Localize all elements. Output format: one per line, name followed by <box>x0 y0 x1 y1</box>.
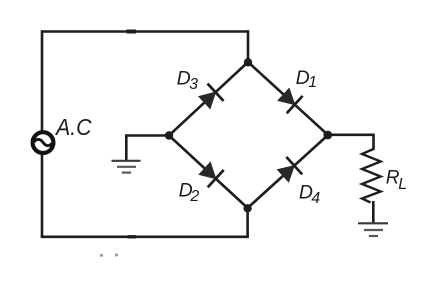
svg-text:3: 3 <box>189 76 198 93</box>
diode D1 symbol <box>278 88 303 113</box>
wire left vertical upper (top rail to AC source) <box>41 30 44 130</box>
ground GND1 (left of bridge) <box>112 161 141 173</box>
stray speck right <box>115 253 118 256</box>
wire resistor to right ground <box>372 201 375 223</box>
diode D3 symbol <box>199 84 224 109</box>
wire top node drop vertical <box>247 30 250 62</box>
stray speck left <box>100 254 103 257</box>
label D1 <box>296 67 317 91</box>
wire bottom tick segment <box>128 235 137 238</box>
wire bottom node stub vertical <box>246 208 249 238</box>
wire bridge arm D2 (left node to bottom node) <box>169 136 248 209</box>
wire top horizontal <box>42 30 248 33</box>
node right (bridge + output) <box>323 131 332 140</box>
label D2 <box>179 180 200 206</box>
diode D2 symbol <box>199 162 224 187</box>
ground GND2 (below RL) <box>358 223 388 236</box>
label RL (load resistor) <box>386 168 407 193</box>
AC source sine symbol <box>34 139 52 145</box>
svg-text:A.C: A.C <box>54 114 92 140</box>
node top (bridge + input) <box>244 58 252 66</box>
wire bridge arm D1 (top node to right node) <box>248 62 328 135</box>
node left (bridge + ground) <box>165 131 173 139</box>
AC source U1 circle <box>33 132 54 153</box>
wire left vertical lower (AC source to bottom rail) <box>41 155 44 237</box>
wire bridge arm D3 (left node to top node) <box>169 62 248 136</box>
label D3 <box>177 67 199 93</box>
wire right output horizontal <box>328 135 374 150</box>
wire bottom horizontal <box>41 236 248 239</box>
wire bridge arm D4 (bottom node to right node) <box>248 135 328 208</box>
resistor RL zigzag <box>362 149 381 203</box>
svg-text:2: 2 <box>189 188 199 205</box>
svg-text:L: L <box>398 176 407 193</box>
diode D4 symbol <box>278 157 303 182</box>
wire top tick segment <box>127 30 137 34</box>
svg-text:1: 1 <box>308 74 317 91</box>
svg-text:4: 4 <box>311 190 320 207</box>
node bottom (bridge + input) <box>243 204 251 212</box>
label D4 <box>299 182 321 208</box>
wire left ground stub <box>126 136 169 161</box>
